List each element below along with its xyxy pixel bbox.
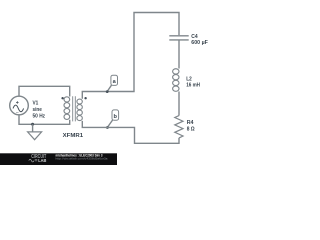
voltage source V1 — [10, 96, 29, 115]
svg-text:R4: R4 — [187, 120, 195, 126]
wire — [19, 115, 70, 125]
svg-text:16 mH: 16 mH — [186, 83, 200, 89]
label L2 value — [186, 76, 200, 88]
wire — [82, 13, 179, 99]
wire — [178, 92, 180, 116]
svg-text:50 Hz: 50 Hz — [33, 113, 46, 119]
transformer XFMR1 — [61, 96, 86, 121]
label R4 value — [187, 120, 195, 132]
capacitor C4 — [169, 36, 188, 40]
svg-text:C4: C4 — [191, 34, 198, 40]
label V1 value — [33, 101, 46, 120]
svg-text:600 µF: 600 µF — [191, 40, 208, 46]
inductor L2 — [173, 69, 179, 92]
svg-text:XFMR1: XFMR1 — [63, 133, 84, 139]
svg-text:b: b — [114, 114, 118, 120]
wire — [82, 121, 179, 143]
ground — [28, 123, 42, 140]
node a — [106, 75, 118, 93]
attribution text — [56, 153, 108, 160]
CircuitLab logo bar — [0, 153, 117, 165]
label C4 value — [191, 34, 208, 46]
resistor R4 — [175, 116, 183, 138]
svg-text:V1: V1 — [33, 101, 39, 107]
wire — [19, 86, 70, 96]
node b — [106, 110, 119, 129]
svg-text:8 Ω: 8 Ω — [187, 127, 195, 133]
svg-text:LAB: LAB — [38, 158, 47, 163]
svg-text:http://circuitlab.com/c4358d5a: http://circuitlab.com/c4358d5a6ur3a — [56, 156, 108, 160]
svg-text:L2: L2 — [186, 76, 192, 82]
svg-text:sine: sine — [33, 107, 43, 113]
wire — [178, 40, 180, 69]
